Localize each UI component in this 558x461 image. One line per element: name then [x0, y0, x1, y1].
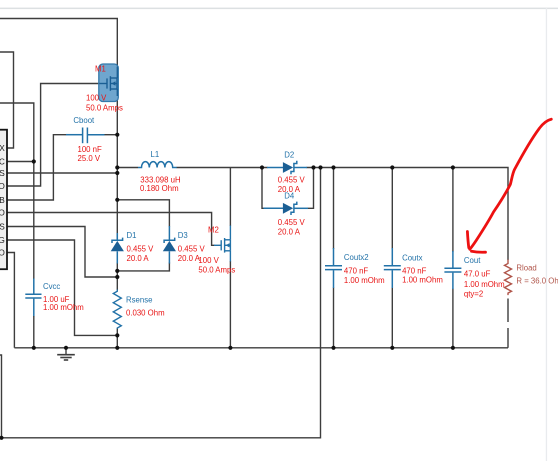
wire Coutx2 branch bottom: [333, 288, 335, 348]
node Cout top: [451, 165, 455, 169]
wire Cout branch bottom: [452, 289, 454, 348]
transistor M2: [198, 226, 235, 275]
svg-text:470 nF: 470 nF: [344, 267, 369, 276]
diode D1 (schottky, vertical): [111, 231, 154, 264]
wire pin O (HO) to M1 gate: [7, 84, 99, 187]
svg-text:M1: M1: [95, 65, 106, 74]
svg-text:0.455 V: 0.455 V: [127, 245, 155, 254]
wire D3 anode bottom link to D1: [117, 263, 169, 271]
svg-text:20.0 A: 20.0 A: [278, 228, 301, 237]
wire Coutx branch bottom: [391, 288, 393, 348]
node Cvcc bus: [32, 346, 36, 350]
capacitor Cout: [444, 251, 504, 299]
node D4 branch left: [260, 165, 264, 169]
svg-text:25.0 V: 25.0 V: [78, 154, 101, 163]
svg-text:0.455 V: 0.455 V: [278, 218, 306, 227]
wire M2 source to bus: [229, 261, 231, 348]
svg-text:50.0 Amps: 50.0 Amps: [86, 104, 123, 113]
node Vout return tap: [318, 165, 322, 169]
top panel divider line: [0, 8, 558, 10]
svg-text:1.00 mOhm: 1.00 mOhm: [402, 276, 443, 285]
svg-text:B: B: [0, 195, 5, 205]
svg-text:O: O: [0, 208, 5, 218]
wire D2 cathode to output rail right end: [307, 168, 509, 261]
svg-text:Cout: Cout: [464, 256, 481, 265]
node D4 branch right: [311, 165, 315, 169]
svg-text:R = 36.0 Ohm: R = 36.0 Ohm: [516, 276, 558, 285]
wire M1 source down switch column: [116, 90, 118, 240]
svg-text:Coutx: Coutx: [402, 253, 422, 262]
svg-text:L1: L1: [151, 150, 160, 159]
wire VIN top rail: [0, 19, 117, 67]
wire D4 parallel loop: [262, 168, 264, 209]
capacitor Cvcc: [25, 279, 83, 348]
wire pin G (CSG) to Rsense bottom: [7, 240, 117, 335]
transistor M1 (selected highlight): [86, 64, 123, 113]
node M2 source bus: [228, 346, 232, 350]
svg-text:Cvcc: Cvcc: [43, 282, 60, 291]
svg-text:D1: D1: [127, 231, 137, 240]
wire Rload bottom segment after gap: [507, 328, 509, 348]
capacitor Coutx2: [325, 248, 385, 288]
node D1 anode link: [115, 269, 119, 273]
wire Coutx branch top: [391, 168, 393, 250]
svg-text:O: O: [0, 181, 5, 191]
wire switch column through Rsense region: [116, 263, 118, 290]
wire pin C stub: [7, 161, 34, 163]
svg-text:Rload: Rload: [516, 263, 536, 272]
wire left feed to pin X: [0, 52, 14, 148]
svg-text:20.0 A: 20.0 A: [127, 254, 150, 263]
node Cout bus: [451, 346, 455, 350]
node Rsense to bus: [115, 346, 119, 350]
svg-text:1.00 mOhm: 1.00 mOhm: [43, 303, 84, 312]
inductor L1: [138, 150, 181, 193]
wire Vout return left edge: [0, 355, 2, 438]
node Rsense bottom sense: [115, 333, 119, 337]
wire Cout branch top: [452, 168, 454, 253]
wire SW node to L1: [117, 167, 138, 169]
node SW at L1: [115, 165, 119, 169]
wire Rload bottom segment: [507, 299, 509, 323]
node Coutx2 bus: [331, 346, 335, 350]
svg-text:100 nF: 100 nF: [78, 145, 103, 154]
svg-text:50.0 Amps: 50.0 Amps: [198, 266, 235, 275]
wire Cboot right to switch column: [104, 134, 117, 136]
node CS tap: [115, 275, 119, 279]
svg-text:D3: D3: [178, 231, 188, 240]
svg-text:100 V: 100 V: [198, 256, 219, 265]
svg-text:G: G: [0, 235, 5, 245]
node return corner: [0, 436, 4, 440]
capacitor Cboot: [66, 116, 105, 163]
svg-text:M2: M2: [208, 226, 219, 235]
wire Rsense bottom to bus: [116, 329, 118, 348]
IC U1 (controller, cut off at left edge): [0, 130, 7, 270]
wire pin O (GND) down to ground bus: [7, 253, 14, 348]
node Coutx bus: [390, 346, 394, 350]
node Coutx2 top: [331, 165, 335, 169]
red annotation arrow: [467, 119, 551, 252]
node D3 link tap: [115, 198, 119, 202]
svg-text:Rsense: Rsense: [126, 295, 152, 304]
wire pin B to Cboot: [7, 135, 66, 200]
diode D2 (schottky, horizontal): [267, 151, 307, 195]
node SW sense tap: [115, 171, 119, 175]
diode D4 (schottky, horizontal): [264, 192, 309, 237]
wire left feed to VCC node: [0, 103, 34, 279]
right panel divider line: [546, 8, 547, 461]
svg-text:0.455 V: 0.455 V: [278, 176, 306, 185]
node Coutx top: [390, 165, 394, 169]
svg-text:S: S: [0, 168, 5, 178]
svg-text:qty=2: qty=2: [464, 290, 483, 299]
wire M2 drain from rail: [229, 168, 231, 227]
wire D4 cathode up to rail: [308, 168, 314, 209]
wire Coutx2 branch top: [333, 168, 335, 250]
resistor Rload: [505, 260, 558, 296]
svg-text:470 nF: 470 nF: [402, 267, 427, 276]
diode D3 (schottky, vertical): [163, 226, 206, 264]
wire ground bus: [14, 347, 508, 349]
node Cboot right: [115, 133, 119, 137]
svg-text:D2: D2: [284, 151, 294, 160]
svg-text:1.00 mOhm: 1.00 mOhm: [344, 276, 385, 285]
svg-text:X: X: [0, 143, 5, 153]
svg-text:100 V: 100 V: [86, 94, 107, 103]
svg-text:Coutx2: Coutx2: [344, 253, 369, 262]
svg-text:D4: D4: [284, 192, 295, 201]
resistor Rsense: [113, 290, 164, 329]
ground symbol: [57, 348, 75, 360]
svg-text:S: S: [0, 222, 5, 232]
svg-text:47.0 uF: 47.0 uF: [464, 269, 491, 278]
svg-text:0.455 V: 0.455 V: [178, 245, 206, 254]
wire pin O (LO) to M2 gate: [7, 213, 215, 246]
svg-text:1.00 mOhm: 1.00 mOhm: [464, 280, 505, 289]
svg-text:C: C: [0, 157, 5, 167]
svg-text:O: O: [0, 248, 5, 258]
svg-text:0.030 Ohm: 0.030 Ohm: [126, 309, 165, 318]
wire pin S (CS) to Rsense top: [7, 227, 117, 278]
svg-text:Cboot: Cboot: [73, 116, 95, 125]
wire pin S to SW node: [7, 172, 117, 174]
node ground bus: [64, 346, 68, 350]
svg-text:20.0 A: 20.0 A: [178, 254, 201, 263]
wire Vout return drop: [2, 168, 321, 438]
wire L1 to D2 anode / output rail: [177, 167, 268, 169]
node pin C / VCC tap: [32, 159, 36, 163]
wire D3 cathode link from switch column: [117, 200, 169, 227]
capacitor Coutx: [384, 248, 443, 288]
svg-text:0.180 Ohm: 0.180 Ohm: [140, 184, 179, 193]
